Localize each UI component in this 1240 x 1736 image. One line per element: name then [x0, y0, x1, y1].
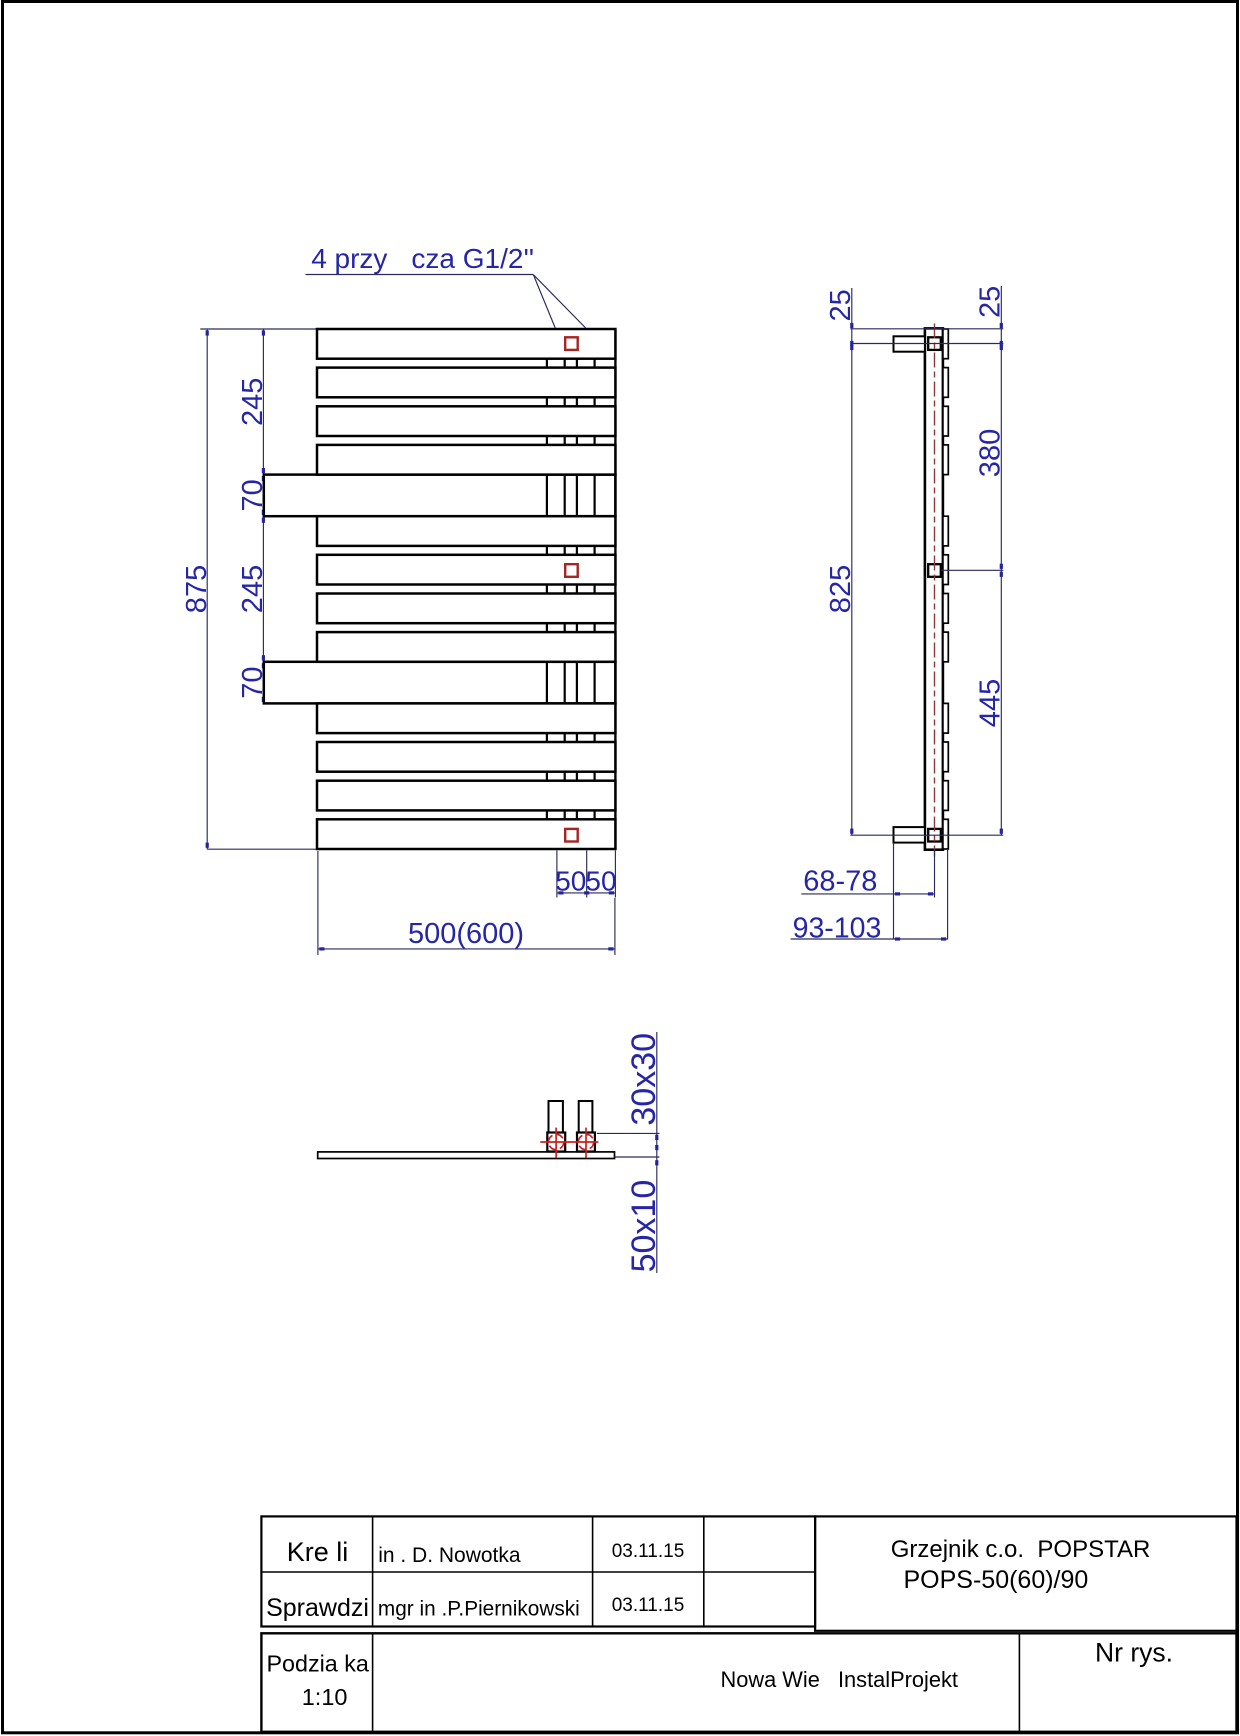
section bracket 1	[549, 1101, 563, 1133]
section ext line tube top	[597, 1132, 660, 1134]
ext line pipe center	[934, 850, 936, 898]
svg-text:Podzia ka: Podzia ka	[267, 1651, 369, 1677]
title name box	[815, 1516, 1236, 1630]
svg-text:Nowa Wie InstalProjekt: Nowa Wie InstalProjekt	[721, 1667, 958, 1692]
panel bar 3	[317, 406, 615, 436]
leader underline	[306, 274, 534, 276]
panel bar 7	[317, 594, 615, 624]
ext line middle connection	[941, 569, 1004, 571]
svg-text:825: 825	[825, 565, 857, 613]
dim 50/50 line	[557, 892, 616, 894]
side bar 1 cross-section	[943, 329, 948, 359]
dim 875 line	[206, 329, 208, 849]
panel bar 5	[317, 516, 615, 546]
big panel A (70mm, extends left)	[264, 475, 616, 517]
dim col left (25/825)	[851, 288, 853, 835]
side bar 5 cross-section	[943, 516, 948, 546]
svg-text:Grzejnik c.o. POPSTAR: Grzejnik c.o. POPSTAR	[891, 1536, 1151, 1563]
svg-text:50: 50	[585, 866, 616, 897]
title col dividers	[372, 1516, 374, 1626]
panel bar 2	[317, 368, 615, 398]
svg-text:03.11.15: 03.11.15	[612, 1595, 685, 1616]
panel bar 11	[317, 781, 615, 811]
title block upper-left table	[261, 1516, 815, 1626]
svg-text:POPS-50(60)/90: POPS-50(60)/90	[904, 1566, 1089, 1594]
side connection square bottom	[928, 829, 941, 842]
svg-text:Sprawdzi: Sprawdzi	[266, 1594, 369, 1622]
connection square middle (front)	[565, 564, 578, 577]
svg-text:cza G1/2'': cza G1/2''	[411, 243, 534, 274]
svg-text:500(600): 500(600)	[408, 918, 524, 950]
crosshair lines	[540, 1141, 598, 1143]
connection square top (front)	[565, 337, 578, 350]
ext line bottom bracket center	[850, 834, 1003, 836]
side bar 4 cross-section	[943, 445, 948, 475]
side connection square top	[928, 337, 941, 350]
ext line wall plane	[893, 843, 895, 940]
crosshair circle 1	[549, 1134, 564, 1149]
side bar 12 cross-section	[943, 819, 948, 849]
side centerline (red dashed)	[934, 324, 936, 857]
ext line top bracket center	[850, 343, 1003, 345]
svg-text:in . D. Nowotka: in . D. Nowotka	[378, 1544, 521, 1567]
dim col right (25/380/445)	[1000, 286, 1002, 835]
svg-text:93-103: 93-103	[793, 913, 882, 945]
collector tube 2 vertical lines	[576, 329, 578, 849]
svg-text:25: 25	[975, 286, 1007, 318]
svg-text:445: 445	[975, 679, 1007, 727]
side bar 9 cross-section	[943, 703, 948, 733]
title block lower table	[261, 1633, 1236, 1732]
side bar 3 cross-section	[943, 406, 948, 436]
section flat bar 50x10	[318, 1152, 615, 1159]
panel bar 9	[317, 703, 615, 733]
dim 245/70 line	[262, 329, 264, 703]
panel bar 10	[317, 742, 615, 772]
side collector profile	[925, 328, 943, 849]
side bar 2 cross-section	[943, 368, 948, 398]
section ext line strip bottom	[615, 1156, 660, 1158]
collector tube 1 vertical lines	[546, 329, 548, 849]
svg-text:Nr rys.: Nr rys.	[1095, 1638, 1173, 1668]
wall bracket top	[894, 336, 925, 351]
ext line top edge	[850, 328, 1003, 330]
leader line to tube 2	[534, 275, 586, 328]
title row divider	[261, 1571, 815, 1573]
connection square bottom (front)	[565, 829, 578, 842]
svg-text:68-78: 68-78	[803, 866, 877, 898]
section tube 1	[547, 1133, 565, 1152]
svg-text:25: 25	[825, 289, 857, 321]
dim 50/50 extension lines	[556, 850, 558, 897]
leader line to tube 1	[533, 275, 555, 329]
svg-text:30x30: 30x30	[625, 1033, 663, 1126]
dim 68-78 line	[801, 893, 934, 895]
dim 875 extension lines	[200, 328, 317, 330]
side bar 7 cross-section	[943, 594, 948, 624]
svg-text:875: 875	[181, 565, 213, 613]
big panel B (70mm, extends left)	[264, 662, 616, 704]
ext line bar front face	[947, 850, 949, 940]
side bar 6 cross-section	[943, 555, 948, 585]
radiator right edge	[614, 329, 616, 849]
panel bar 12	[317, 819, 615, 849]
side bar 8 cross-section	[943, 632, 948, 662]
panel bar 1	[317, 329, 615, 359]
dim 500(600) extension lines	[317, 851, 319, 955]
svg-text:4 przy: 4 przy	[311, 243, 387, 274]
dim 500(600) line	[318, 948, 615, 950]
svg-text:50x10: 50x10	[625, 1180, 663, 1273]
svg-text:380: 380	[975, 429, 1007, 477]
panel bar 6	[317, 555, 615, 585]
panel bar 8	[317, 632, 615, 662]
svg-text:245: 245	[237, 565, 269, 613]
svg-text:Kre li: Kre li	[287, 1537, 349, 1567]
section dim line	[656, 1032, 658, 1273]
svg-text:03.11.15: 03.11.15	[612, 1541, 685, 1562]
side connection square middle	[928, 564, 941, 577]
crosshair circle 2	[578, 1134, 593, 1149]
svg-text:245: 245	[237, 378, 269, 426]
side bar 11 cross-section	[943, 781, 948, 811]
svg-text:mgr in .P.Piernikowski: mgr in .P.Piernikowski	[378, 1598, 580, 1621]
section bracket 2	[579, 1101, 593, 1133]
side bar 10 cross-section	[943, 742, 948, 772]
panel bar 4	[317, 445, 615, 475]
section tube 2	[577, 1133, 595, 1152]
wall bracket bottom	[894, 827, 925, 843]
svg-text:1:10: 1:10	[302, 1684, 348, 1710]
dim 93-103 line	[791, 938, 948, 940]
svg-text:50: 50	[555, 866, 586, 897]
